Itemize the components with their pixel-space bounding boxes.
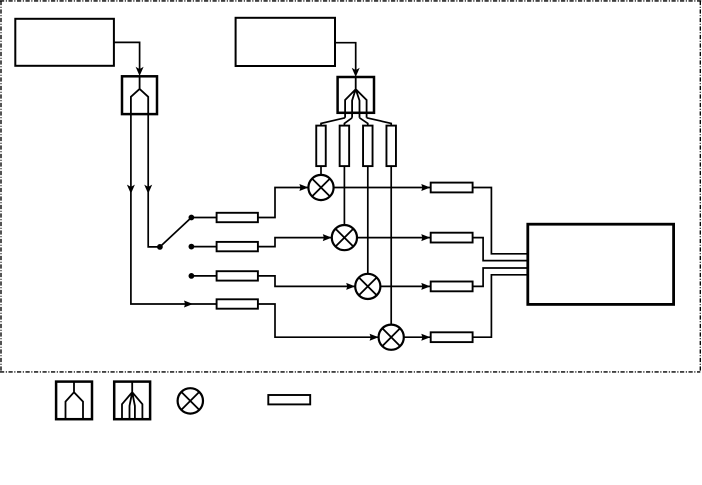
wire O3 to receiver box: [473, 268, 528, 286]
wire SP2 port2 to filter F2: [344, 118, 352, 126]
wire F3 to mixer X3: [367, 166, 369, 274]
mixer X2: [332, 225, 357, 250]
mixer X1: [308, 175, 333, 200]
switch blade wire (diagonal to branch 1): [160, 218, 192, 247]
dash-dot frame right border: [699, 1, 701, 372]
dash-dot frame top border: [0, 0, 702, 2]
switch pole node dot: [157, 244, 163, 250]
wire F2 to mixer X2: [343, 166, 345, 225]
wire O4 to receiver box: [473, 275, 528, 337]
wire SP1 right output (to switch pole): [148, 114, 160, 247]
wire A3 to mixer X3: [258, 276, 355, 287]
node dot branch 2: [189, 244, 195, 250]
filter F2: [340, 126, 350, 167]
wire SP2 port3 to filter F3: [360, 118, 368, 126]
wire X4 to output filter O4: [404, 336, 431, 338]
source box B1 (top left): [15, 19, 114, 66]
splitter SP2 (1x4) box: [338, 77, 374, 113]
output filter O1: [431, 183, 473, 193]
wire X3 to output filter O3: [380, 285, 430, 287]
legend splitter 1x4 symbol: [114, 382, 150, 420]
wire SP2 port1 to filter F1: [321, 118, 345, 126]
wire A2 to mixer X2: [258, 238, 332, 247]
arrow into SP1: [136, 67, 144, 76]
receiver box B3 (right): [528, 224, 674, 304]
source box B2 (top middle): [236, 18, 335, 66]
output filter O3: [431, 282, 473, 292]
mixer X3: [355, 274, 380, 299]
arrow on branch 4 wire: [184, 301, 193, 308]
node dot branch 1: [189, 215, 195, 221]
legend filter symbol: [268, 395, 310, 404]
arrow into O2: [421, 234, 430, 241]
wire node to attenuator A3: [191, 275, 216, 277]
arrow into O1: [421, 184, 430, 191]
arrow on SP1 right output: [144, 185, 152, 194]
splitter SP2 internal fan symbol: [345, 77, 367, 118]
wire SP2 port4 to filter F4: [367, 118, 392, 126]
attenuator A2: [217, 242, 258, 251]
legend mixer symbol: [178, 388, 203, 413]
output filter O4: [431, 332, 473, 342]
legend splitter 1x2 symbol: [56, 382, 92, 420]
arrow on SP1 left output: [127, 185, 135, 194]
splitter SP1 internal Y symbol: [131, 76, 148, 114]
splitter SP1 (1x2) box: [122, 76, 157, 114]
attenuator A4: [217, 299, 258, 308]
attenuator A1: [217, 213, 258, 222]
wire node to attenuator A1: [191, 217, 216, 219]
wire O2 to receiver box: [473, 238, 528, 261]
filter F3: [363, 126, 373, 167]
arrow into mixer X4: [370, 334, 379, 341]
wire B1 to splitter SP1: [114, 42, 140, 73]
arrow into SP2: [352, 68, 360, 77]
arrow into O3: [421, 283, 430, 290]
arrow into mixer X3: [346, 283, 355, 290]
wire node to attenuator A2: [191, 246, 216, 248]
arrow into mixer X1: [299, 184, 308, 191]
filter F4: [386, 126, 396, 167]
node dot branch 3: [189, 273, 195, 279]
arrow into O4: [421, 334, 430, 341]
wire F1 to mixer X1: [320, 166, 322, 175]
output filter O2: [431, 233, 473, 243]
wire A4 to mixer X4: [258, 304, 379, 337]
wire X1 to output filter O1: [334, 187, 431, 189]
wire A1 to mixer X1: [258, 188, 309, 218]
attenuator A3: [217, 271, 258, 280]
wire O1 to receiver box: [473, 188, 528, 254]
filter F1: [316, 126, 326, 167]
arrow into mixer X2: [323, 234, 332, 241]
dash-dot frame bottom line: [0, 371, 700, 373]
wire F4 to mixer X4: [390, 166, 392, 325]
wire X2 to output filter O2: [357, 237, 430, 239]
dash-dot frame left border: [0, 1, 2, 372]
wire SP1 left output (long, to branch 4): [131, 114, 217, 304]
wire B2 to splitter SP2: [335, 43, 356, 74]
mixer X4: [379, 325, 404, 350]
